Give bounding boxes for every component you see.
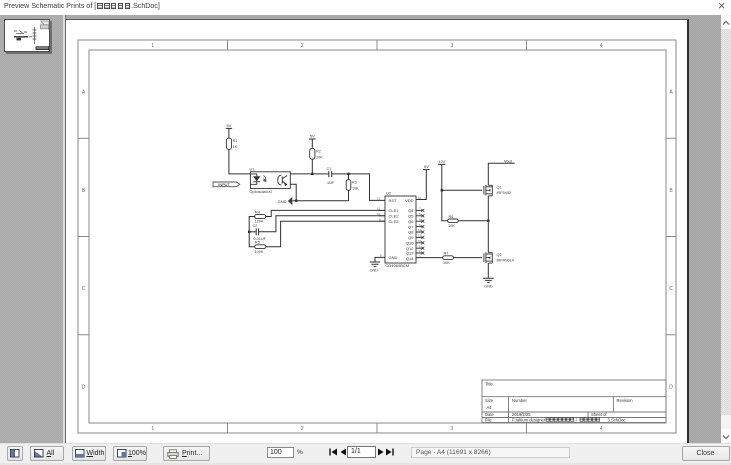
close button [682,446,730,461]
svg-text:U2: U2 [386,191,392,196]
wire CLE2 from C2 [259,216,385,232]
svg-text:C: C [669,286,673,292]
wire C1 to RST corner [332,174,385,201]
svg-text:R6: R6 [449,215,454,219]
svg-text:12: 12 [377,197,381,201]
thumbnail tile [4,19,50,52]
svg-text:1K: 1K [233,145,238,149]
capacitor C2 [256,228,258,235]
All button [30,446,64,461]
svg-text:2: 2 [301,43,304,49]
svg-text:3: 3 [450,43,453,49]
svg-text:F:\altium designer: F:\altium designer [512,418,546,423]
svg-text:B: B [82,188,86,194]
svg-text:2019/2/25: 2019/2/25 [512,412,531,417]
svg-text:10: 10 [377,212,381,216]
node R6/drain [487,220,489,222]
svg-text:Q8: Q8 [408,230,414,235]
svg-text:CLE1: CLE1 [389,208,400,213]
svg-text:A: A [82,90,86,96]
svg-text:R4: R4 [255,210,260,214]
svg-text:CD4060BCM: CD4060BCM [386,263,410,268]
svg-text:Vout: Vout [504,158,513,163]
node rail/C2 [248,231,250,233]
wire U1 emitter down [290,184,296,200]
svg-text:11: 11 [377,207,380,211]
svg-text:15: 15 [418,239,422,243]
left sidebar [0,15,63,443]
svg-text:12V: 12V [438,159,445,164]
wire gate Q1 [442,189,482,191]
svg-text:1: 1 [151,43,154,49]
svg-text:R1: R1 [233,139,238,143]
thumbnail title block [36,46,50,50]
svg-text:A4: A4 [487,405,493,410]
page input [347,446,376,458]
svg-text:5V: 5V [310,134,315,139]
U1 light arrow [263,176,266,182]
svg-text:16: 16 [418,196,422,200]
wire C2 left [249,231,256,233]
wire 12V node to R6 [442,190,448,221]
wire R1 bottom to U1 anode [229,149,251,174]
earth ground Q2 [483,278,494,282]
svg-text:GND: GND [484,284,493,288]
transistor Q2 [484,252,492,263]
title bar [0,0,731,15]
wire GND to R3 bottom [293,200,349,202]
status box [411,447,570,459]
svg-text:.1UF: .1UF [326,181,335,185]
svg-text:File: File [485,418,492,423]
svg-text:A: A [669,90,673,96]
close X [718,0,725,13]
svg-text:B: B [669,188,673,194]
thumbnail mini schematic [14,36,28,38]
svg-text:5V: 5V [424,164,429,169]
svg-text:U1: U1 [250,167,255,171]
power port GND (arrow) [288,197,292,205]
resistor R3 [346,179,351,190]
svg-text:Revision: Revision [617,398,634,403]
sheet outer frame [78,40,676,433]
svg-text:Date: Date [485,412,495,417]
svg-text:Q6: Q6 [408,219,414,224]
white page [66,19,689,444]
port INPUT [213,182,240,187]
svg-text:3.SchDoc: 3.SchDoc [608,418,626,423]
capacitor C1 [329,171,332,177]
U1 LED triangle [253,176,260,181]
svg-text:Q7: Q7 [408,224,414,229]
bottom toolbar [0,443,731,465]
svg-text:D: D [82,384,86,390]
wire R3 bottom [348,190,350,200]
svg-text:Title: Title [485,382,493,387]
sheet inner frame [89,50,666,423]
svg-text:CLE3: CLE3 [389,219,400,224]
pin stubs left [379,210,385,221]
zone tick right [666,138,676,335]
svg-text:D: D [669,384,673,390]
optocoupler U1 [250,172,290,189]
svg-text:Q1: Q1 [497,185,502,189]
svg-text:13: 13 [418,234,422,238]
svg-text:Q14: Q14 [406,256,414,261]
node R2/C1 [311,173,313,175]
svg-text:GND: GND [278,199,287,204]
power 12V bar+stem [438,164,445,190]
svg-text:100K: 100K [255,250,264,254]
svg-text:4: 4 [600,426,603,432]
resistor R1 [226,138,231,149]
svg-text:10K: 10K [443,261,450,265]
svg-text:1: 1 [151,426,154,432]
earth ground U2 [370,262,380,266]
node 12V/gate [441,189,443,191]
U1 emitter arrow [284,183,286,186]
svg-text:R5: R5 [255,241,260,245]
svg-text:GND: GND [389,255,398,260]
pin stubs right [416,210,423,253]
zone tick left [78,138,89,335]
zone tick top [228,40,527,50]
svg-text:Size: Size [485,398,494,403]
svg-text:10K: 10K [316,156,323,160]
no-ERC crosses [421,209,424,255]
svg-text:10K: 10K [448,224,455,228]
svg-text:14: 14 [418,228,422,232]
svg-text:RST: RST [389,198,398,203]
svg-text:Q9: Q9 [408,235,414,240]
vertical scrollbar [721,15,731,443]
resistor R6 [448,219,459,223]
wire Q2 source to earth [487,263,489,278]
wire Vout [488,163,515,185]
svg-text:CLE2: CLE2 [389,214,400,219]
zoom input [267,447,294,458]
svg-text:2: 2 [301,426,304,432]
IC U2 CD4060BCM [385,196,416,263]
svg-text:GND: GND [370,269,379,273]
node GND/emitter [295,200,297,202]
junction dots [248,173,490,233]
wire R3 top [348,174,350,180]
svg-text:INPUT: INPUT [218,183,230,187]
power 5V (U2) bar [423,169,430,171]
zone tick bottom [228,423,527,433]
svg-text:Q5: Q5 [408,214,414,219]
title block [482,380,666,423]
100% button [113,446,147,461]
node C1/R3 [347,173,349,175]
svg-text:R2: R2 [316,150,321,154]
thumbnail fold corner [41,21,50,30]
wire Q1 drain to Q2 drain [487,196,489,253]
wire VDD to 5V [416,170,426,200]
wire R2 bottom to node [311,159,313,174]
svg-text:Optoisolator1: Optoisolator1 [250,190,273,194]
power 5V (R1) bar [226,128,232,138]
svg-text:Q10: Q10 [406,241,414,246]
nav next [377,448,384,456]
svg-text:Sheet of: Sheet of [591,412,607,417]
power 5V (R2) bar [309,139,316,148]
svg-text:VDD: VDD [405,198,414,203]
panels toggle button [7,446,23,461]
svg-text:IRFR9014: IRFR9014 [497,259,514,263]
svg-text:Q4: Q4 [408,208,414,213]
wire CLE3 from R5 [266,221,385,247]
svg-text:C1: C1 [327,167,332,171]
wire Q14 to R7 [416,257,443,259]
svg-text:R7: R7 [444,252,449,256]
svg-text:4: 4 [600,43,603,49]
svg-text:120K: 120K [255,220,264,224]
nav first [329,448,338,456]
wire U2 GND pin to earth [375,257,385,261]
nav prev [340,448,347,456]
resistor R5 [255,245,266,249]
svg-text:C: C [82,286,86,292]
svg-text:5V: 5V [226,123,231,128]
resistor R2 [310,148,315,159]
wire CLE1 from R4 [266,210,385,216]
file path CJK glyph blocks [546,418,600,421]
transistor Q1 [484,185,492,196]
svg-text:IRF5402: IRF5402 [497,191,512,195]
wire R4 left / rail [249,217,255,247]
Print button [163,446,210,461]
svg-text:3: 3 [450,426,453,432]
svg-text:R3: R3 [352,181,357,185]
svg-text:C2: C2 [253,224,258,228]
svg-text:\: \ [576,418,578,423]
nav last [385,448,394,456]
wire R7 to Q2 gate [453,257,482,259]
resistor R4 [255,215,266,219]
wire R6 right to drain node [458,220,488,222]
svg-text:10K: 10K [352,187,359,191]
wire U1 collector to C1 [290,173,329,175]
resistor R7 [443,256,454,260]
Width button [72,446,106,461]
svg-text:Number: Number [512,398,527,403]
svg-text:Q2: Q2 [497,253,502,257]
